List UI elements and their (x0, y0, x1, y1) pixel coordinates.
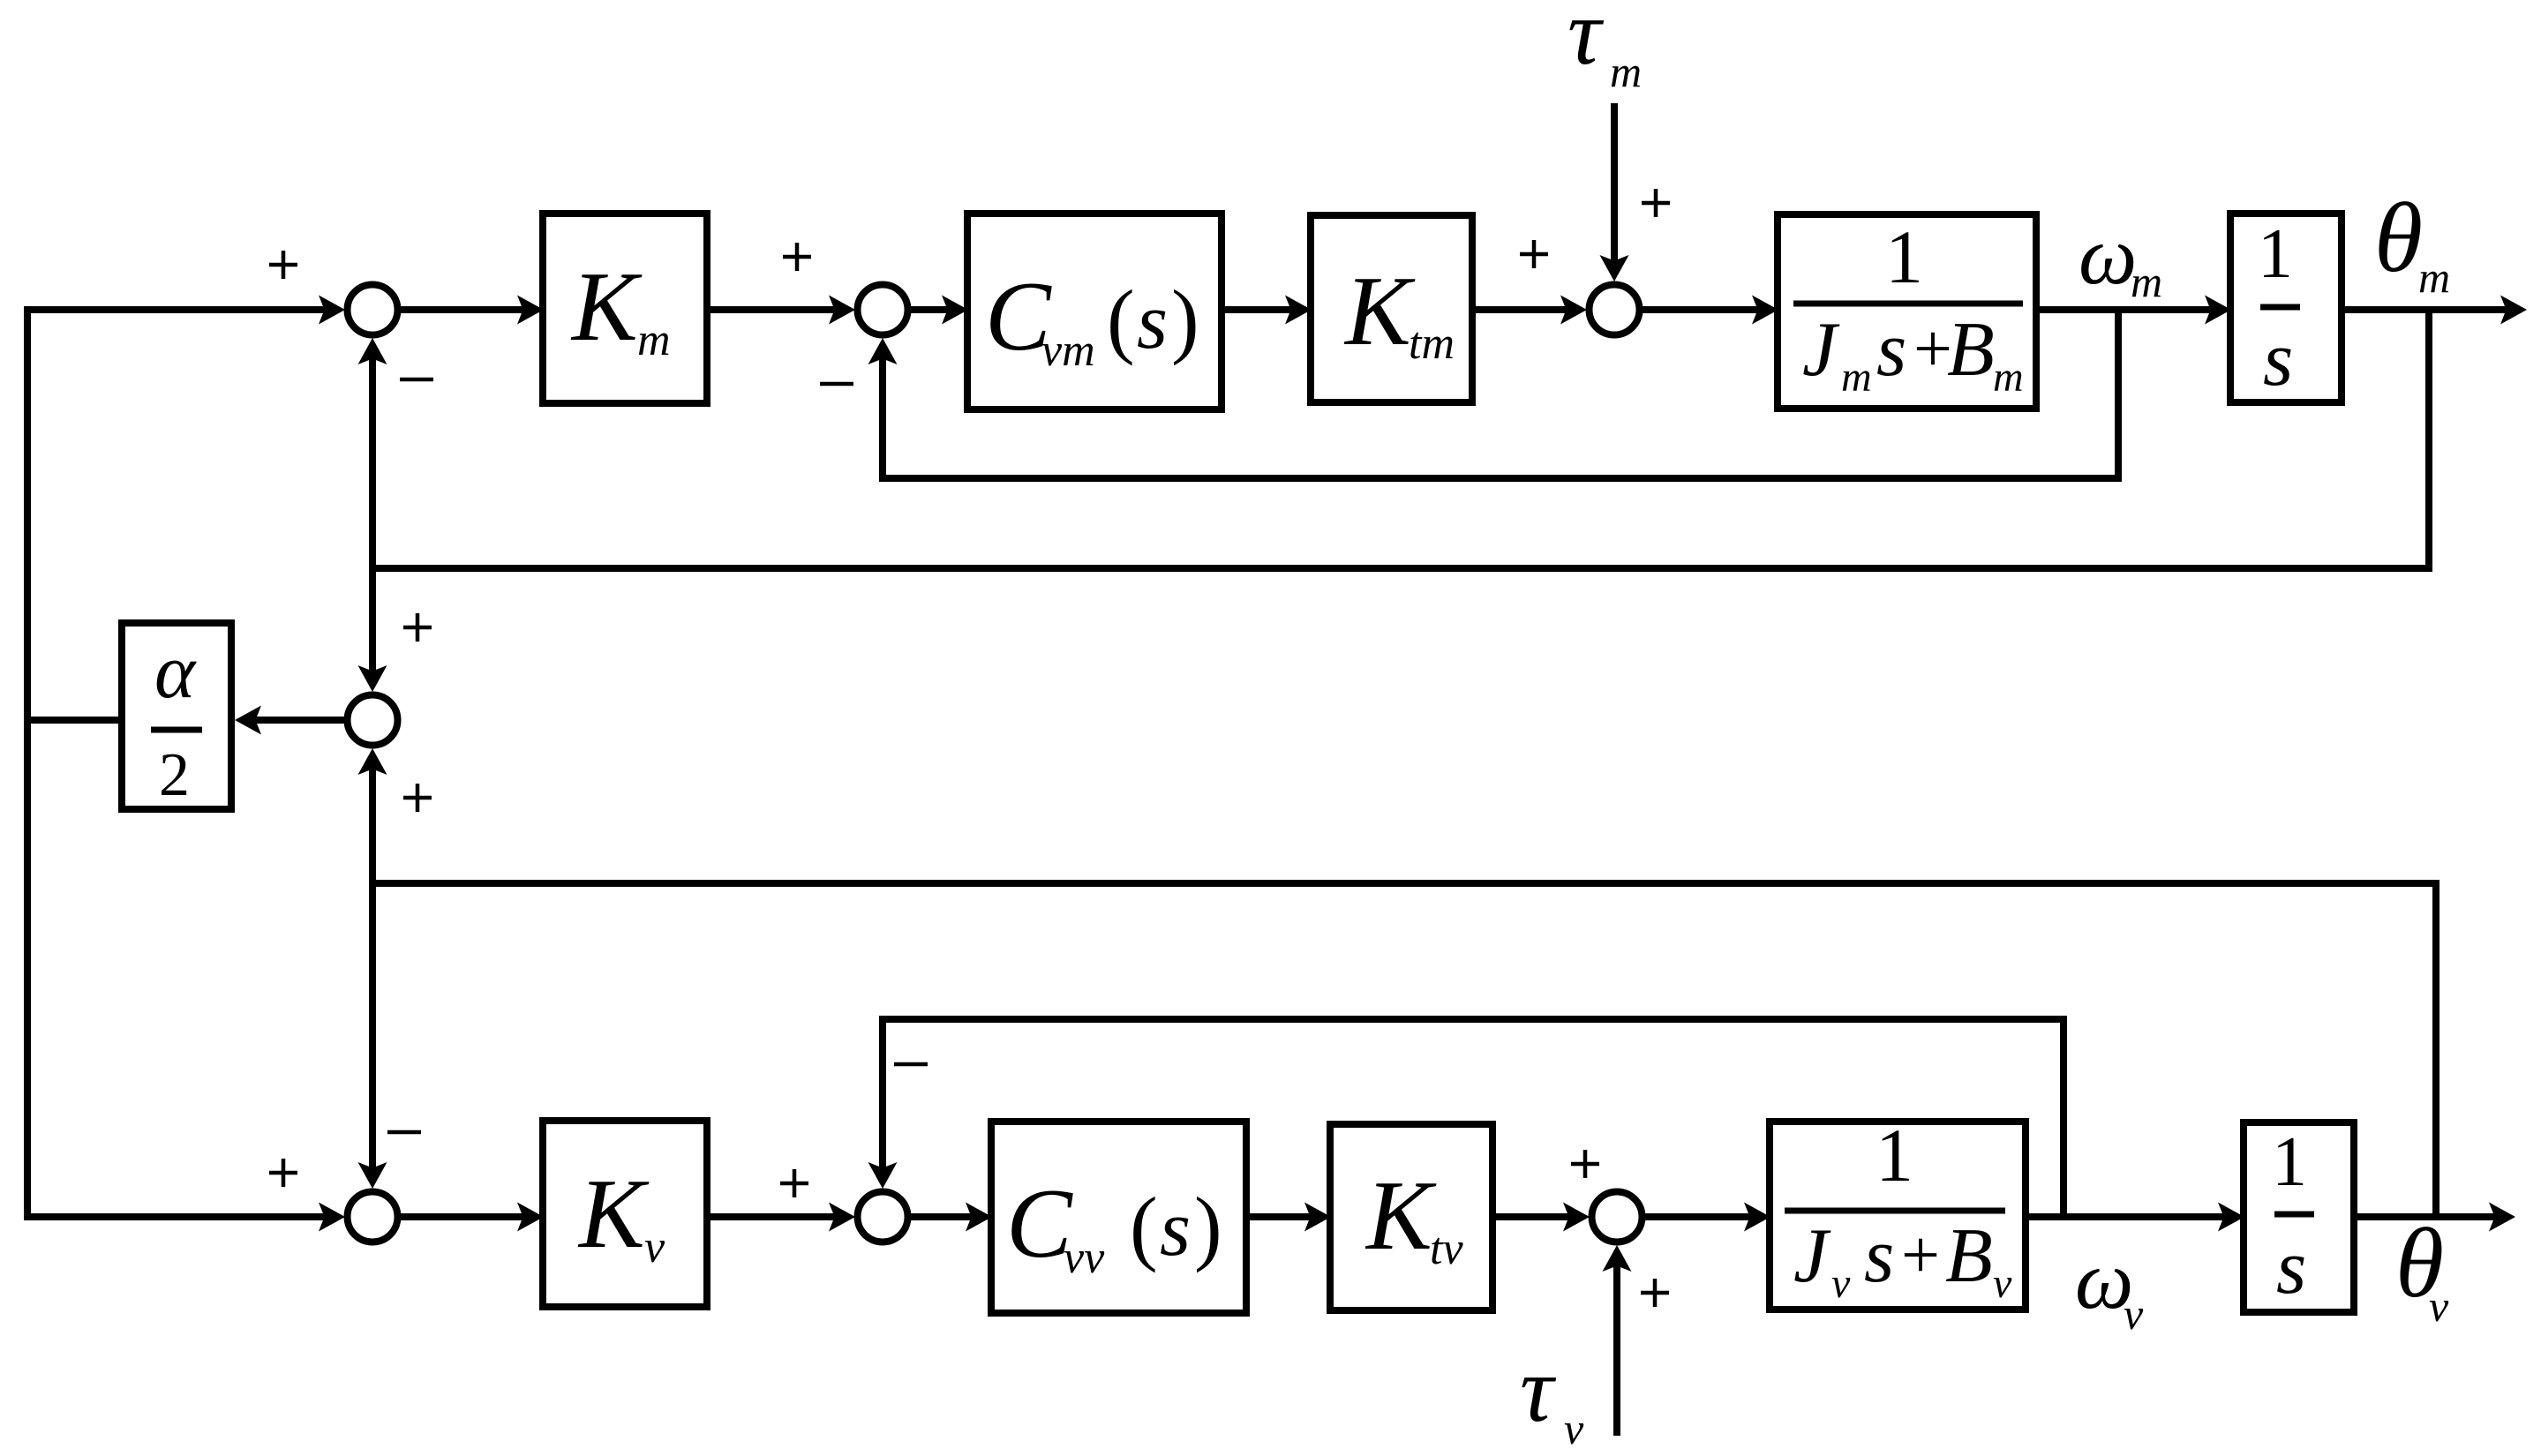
svg-text:s: s (1137, 278, 1168, 365)
svg-text:s: s (1876, 307, 1906, 393)
svg-text:m: m (637, 315, 671, 365)
svg-text:K: K (1364, 1161, 1437, 1271)
svg-text:vm: vm (1041, 326, 1095, 376)
svg-text:s: s (2263, 317, 2293, 402)
svg-text:(: ( (1107, 273, 1135, 366)
svg-text:2: 2 (159, 741, 190, 809)
svg-text:J: J (1802, 307, 1840, 393)
svg-text:1: 1 (1876, 1113, 1913, 1197)
svg-text:α: α (154, 629, 197, 715)
svg-text:m: m (2131, 257, 2162, 306)
svg-text:θ: θ (2374, 184, 2423, 293)
svg-text:K: K (570, 252, 643, 362)
svg-text:v: v (2429, 1281, 2449, 1331)
svg-text:τ: τ (1520, 1338, 1557, 1441)
svg-text:): ) (1171, 273, 1199, 366)
svg-text:v: v (644, 1222, 665, 1272)
svg-text:s: s (1864, 1213, 1894, 1299)
svg-text:tv: tv (1430, 1224, 1463, 1274)
svg-text:K: K (577, 1160, 650, 1269)
svg-text:J: J (1793, 1213, 1831, 1299)
svg-text:1: 1 (2272, 1123, 2307, 1201)
svg-text:1: 1 (1885, 214, 1923, 299)
svg-text:m: m (1841, 354, 1872, 401)
svg-text:K: K (1343, 257, 1416, 366)
svg-text:vv: vv (1064, 1233, 1105, 1283)
svg-text:+: + (1901, 1216, 1940, 1293)
svg-text:B: B (1947, 307, 1995, 393)
svg-text:v: v (1993, 1260, 2012, 1307)
svg-text:tm: tm (1409, 319, 1455, 369)
svg-text:m: m (1993, 354, 2024, 401)
svg-text:v: v (1831, 1260, 1851, 1307)
svg-text:ω: ω (2079, 210, 2137, 302)
svg-text:s: s (2276, 1225, 2306, 1310)
svg-text:): ) (1194, 1180, 1222, 1273)
svg-text:m: m (2418, 252, 2450, 302)
svg-text:v: v (2124, 1289, 2144, 1339)
svg-text:m: m (1610, 47, 1642, 96)
svg-text:B: B (1945, 1213, 1993, 1299)
svg-text:v: v (1564, 1404, 1584, 1453)
svg-text:(: ( (1130, 1180, 1158, 1273)
svg-text:s: s (1160, 1185, 1191, 1272)
svg-text:1: 1 (2258, 215, 2293, 293)
svg-text:τ: τ (1567, 0, 1605, 84)
